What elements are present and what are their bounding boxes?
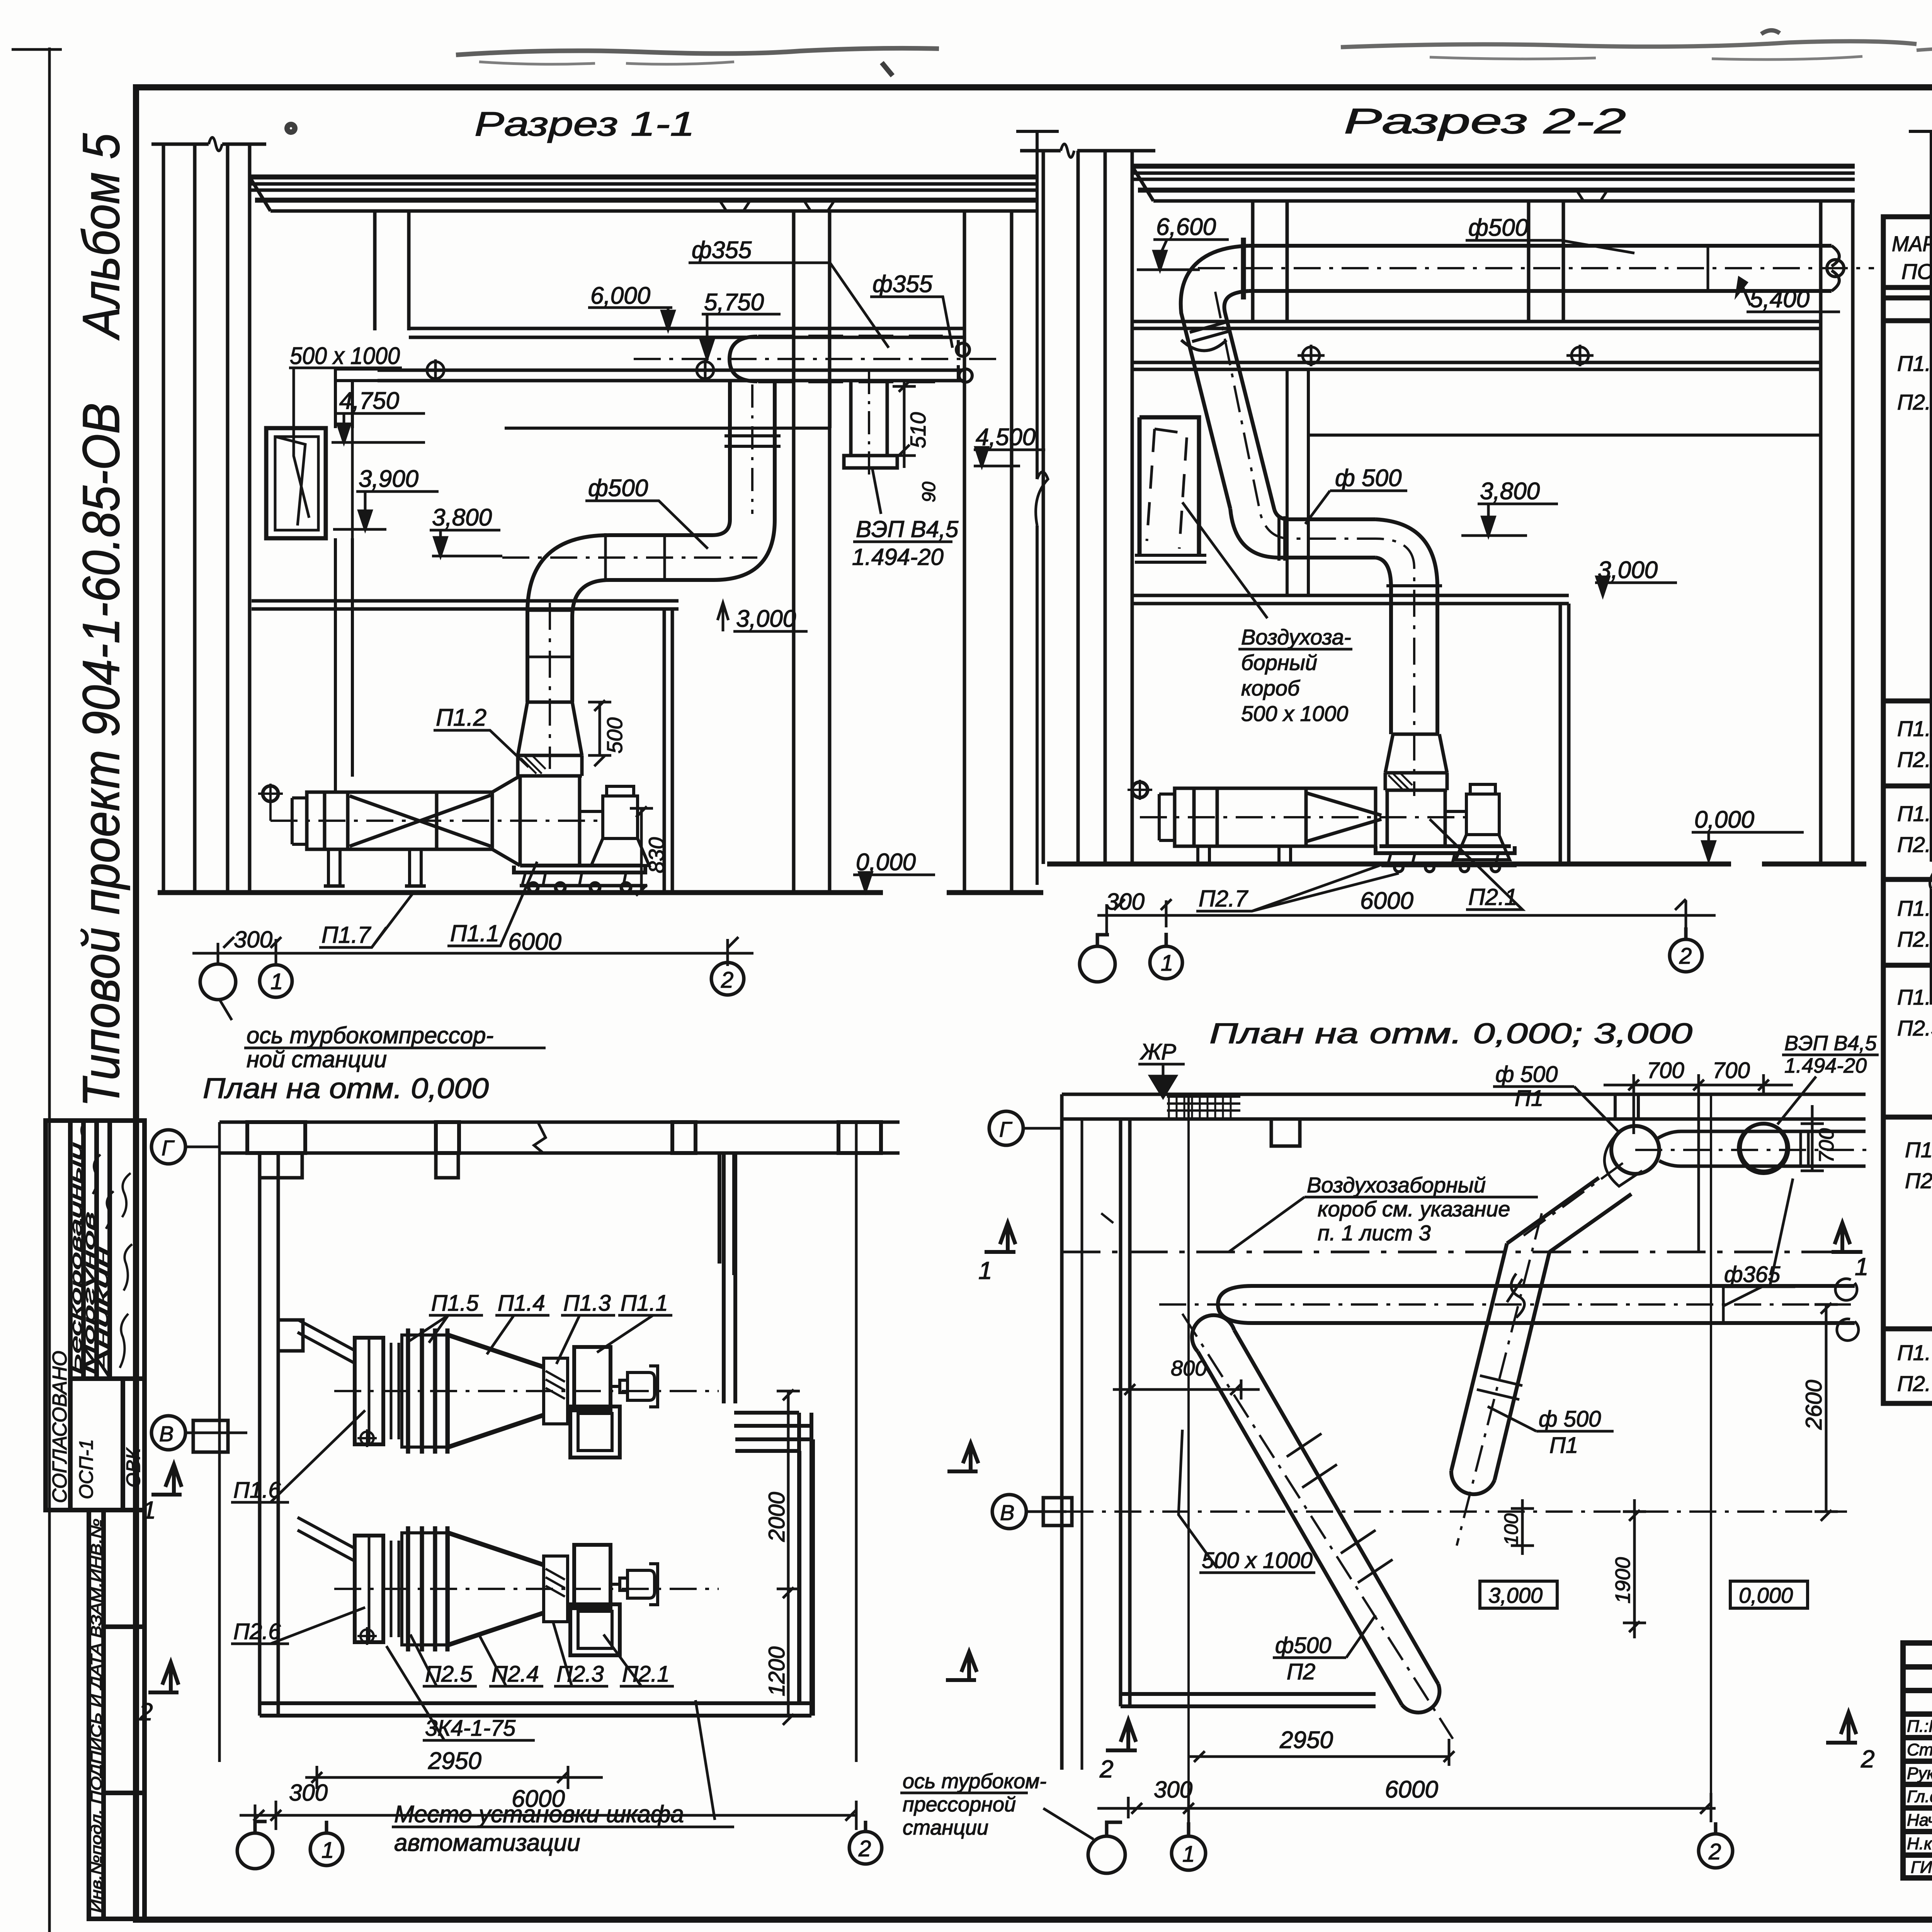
unit П1 flexible insert: [544, 1358, 568, 1424]
left wall: [219, 1122, 303, 1762]
right vertical dim line: [1016, 131, 1059, 885]
section marks: [148, 1443, 978, 1692]
svg-text:2: 2: [1708, 1839, 1721, 1864]
svg-text:Разрез 2-2: Разрез 2-2: [1344, 102, 1626, 141]
svg-text:4,750: 4,750: [339, 388, 399, 414]
svg-text:ф500: ф500: [1468, 214, 1528, 241]
title block: [1903, 1643, 1932, 1878]
svg-text:1.494-20: 1.494-20: [1784, 1054, 1867, 1077]
axis circles: [237, 1821, 882, 1869]
svg-text:П2.7: П2.7: [1199, 886, 1249, 912]
svg-text:700: 700: [1713, 1058, 1750, 1083]
svg-text:3,000: 3,000: [736, 605, 796, 632]
svg-text:П2.4: П2.4: [1897, 927, 1932, 951]
unit П1 damper: [355, 1338, 399, 1444]
svg-text:Воздухоза-: Воздухоза-: [1241, 625, 1351, 649]
svg-text:Г: Г: [162, 1136, 175, 1160]
svg-text:В: В: [1000, 1500, 1014, 1525]
svg-text:Место установки шкафа: Место установки шкафа: [394, 1801, 684, 1828]
labels П1.x: [431, 1291, 668, 1316]
svg-text:2: 2: [139, 1698, 153, 1726]
svg-text:короб см. указание: короб см. указание: [1318, 1197, 1510, 1221]
svg-text:2000: 2000: [764, 1492, 789, 1542]
unit П2 fan: [570, 1545, 620, 1655]
svg-text:ф 500: ф 500: [1335, 465, 1401, 492]
svg-text:Типовой проект 904-1-60.85-ОВ: Типовой проект 904-1-60.85-ОВ Альбом 5: [72, 133, 130, 1107]
svg-text:ЖР: ЖР: [1139, 1039, 1176, 1065]
svg-text:Гл.спец.: Гл.спец.: [1907, 1787, 1932, 1806]
axis G: [989, 1111, 1062, 1145]
svg-text:П2.3: П2.3: [1897, 832, 1932, 857]
svg-text:ВЭП В4,5: ВЭП В4,5: [856, 516, 959, 542]
svg-text:300: 300: [1106, 889, 1145, 915]
roof slab: [1132, 166, 1855, 201]
svg-text:1: 1: [270, 969, 283, 994]
room walls: [260, 1153, 811, 1716]
svg-text:ось турбоком-: ось турбоком-: [903, 1770, 1046, 1793]
svg-text:1.494-20: 1.494-20: [852, 544, 944, 570]
svg-text:2950: 2950: [428, 1748, 481, 1774]
svg-text:Н.контр.: Н.контр.: [1907, 1834, 1932, 1853]
svg-text:6,600: 6,600: [1156, 214, 1216, 240]
unit П1 diffuser cone: [448, 1335, 544, 1447]
left wall columns: [1020, 144, 1155, 864]
svg-text:П2.5: П2.5: [425, 1662, 473, 1687]
signature rows: [1907, 1717, 1932, 1877]
svg-text:борный: борный: [1241, 650, 1317, 675]
svg-text:П2: П2: [1287, 1659, 1315, 1684]
plan at 0.000; 3.000: [900, 1017, 1879, 1873]
svg-text:3,000: 3,000: [1488, 1583, 1543, 1607]
svg-text:510: 510: [906, 412, 930, 448]
svg-text:Ст.инж.: Ст.инж.: [1907, 1740, 1932, 1759]
svg-text:6,000: 6,000: [590, 282, 650, 309]
svg-text:2950: 2950: [1279, 1727, 1333, 1753]
row 3: [1897, 801, 1932, 859]
axis circles: [1080, 927, 1702, 982]
mezzanine slab 3.000: [1132, 595, 1569, 864]
mezzanine slab 3.000: [252, 381, 679, 893]
svg-text:5,750: 5,750: [704, 289, 764, 316]
svg-text:короб: короб: [1241, 676, 1301, 700]
fan + motor: [1376, 784, 1517, 872]
svg-text:2: 2: [1679, 944, 1692, 969]
svg-text:Разрез 1-1: Разрез 1-1: [474, 105, 695, 143]
svg-text:ОСП-1: ОСП-1: [75, 1439, 97, 1499]
unit П2 kalorifer box with flanges: [402, 1526, 448, 1651]
unit П1 motor: [611, 1366, 658, 1407]
section 1-1: [151, 105, 1059, 1072]
specification table: [1883, 186, 1932, 1403]
svg-text:0,000: 0,000: [1739, 1583, 1793, 1607]
svg-text:ф 500: ф 500: [1495, 1062, 1558, 1087]
unit П2 anchor: [357, 1627, 377, 1645]
svg-text:П1.1: П1.1: [450, 920, 499, 946]
inventory boxes column: [89, 1510, 145, 1919]
svg-text:П2.1: П2.1: [1897, 390, 1932, 414]
svg-text:500 х 1000: 500 х 1000: [1202, 1548, 1313, 1573]
transition cone + flexible insert P1.2: [518, 702, 582, 866]
left wall columns: [151, 138, 266, 893]
svg-text:автоматизации: автоматизации: [394, 1830, 580, 1856]
svg-text:300: 300: [289, 1780, 328, 1806]
svg-text:1: 1: [142, 1496, 156, 1524]
svg-text:Воздухозаборный: Воздухозаборный: [1307, 1173, 1486, 1197]
kalorifer box + diffuser: [258, 776, 603, 886]
svg-text:станции: станции: [903, 1816, 988, 1839]
axis V: [992, 1495, 1072, 1529]
svg-text:П1.4: П1.4: [498, 1291, 545, 1316]
row 5: [1897, 985, 1932, 1102]
row 6: [1905, 1136, 1932, 1328]
svg-text:1: 1: [1182, 1842, 1195, 1867]
svg-text:ПОЗ.: ПОЗ.: [1901, 259, 1932, 284]
svg-text:П2.6: П2.6: [1905, 1168, 1932, 1193]
svg-text:П1.7: П1.7: [1897, 1340, 1932, 1365]
hanger anchors: [422, 359, 719, 381]
section 2-2: [1020, 102, 1932, 1005]
duct f355 horizontal (dashed as behind slab): [634, 337, 1005, 382]
svg-text:6000: 6000: [1360, 888, 1413, 914]
svg-text:П2.7: П2.7: [1897, 1371, 1932, 1396]
svg-text:План на отм. 0,000: План на отм. 0,000: [203, 1072, 489, 1104]
svg-text:П1: П1: [1515, 1086, 1543, 1111]
row 4: [1897, 896, 1932, 951]
svg-text:П2.5: П2.5: [1897, 1016, 1932, 1040]
air intake louver window: [266, 428, 326, 538]
svg-text:500 x 1000: 500 x 1000: [290, 343, 400, 369]
svg-text:П2.2: П2.2: [1897, 747, 1932, 772]
svg-text:П2.1: П2.1: [622, 1662, 670, 1687]
header texts: [1892, 230, 1932, 284]
table grid: [1883, 217, 1932, 1403]
svg-text:п. 1 лист 3: п. 1 лист 3: [1318, 1221, 1431, 1245]
fan unit P1.1 with motor: [514, 786, 649, 892]
svg-text:прессорной: прессорной: [903, 1793, 1016, 1816]
crane beam level: [1132, 321, 1821, 595]
svg-text:100: 100: [1500, 1513, 1522, 1546]
unit П2 motor: [611, 1564, 658, 1605]
svg-text:1200: 1200: [764, 1646, 789, 1696]
svg-text:6000: 6000: [1385, 1776, 1438, 1803]
svg-text:Рук.гр.: Рук.гр.: [1907, 1764, 1932, 1783]
svg-text:П1.2: П1.2: [1897, 716, 1932, 741]
beam web band under 5.750 line: [505, 381, 830, 428]
svg-text:2: 2: [858, 1836, 871, 1861]
row 1: [1897, 349, 1932, 698]
duct f355 vertical drop to elbow: [712, 381, 781, 580]
svg-text:П2.3: П2.3: [556, 1662, 604, 1687]
dim 830 vertical: [630, 806, 653, 896]
signatures squiggles: [80, 1119, 132, 1368]
svg-text:П.:ЮЗЕР: П.:ЮЗЕР: [1907, 1717, 1932, 1736]
bottom dimension line: [192, 937, 753, 966]
svg-text:П1.5: П1.5: [1897, 985, 1932, 1009]
unit П2 flexible insert: [544, 1556, 568, 1622]
svg-text:ной станции: ной станции: [247, 1046, 387, 1072]
unit П1 centerline: [334, 1390, 719, 1392]
intake diagonal to П1: [298, 1320, 355, 1363]
svg-text:ф 500: ф 500: [1539, 1406, 1601, 1432]
intake channel: [335, 369, 378, 792]
svg-text:1: 1: [978, 1257, 992, 1284]
column under roof (middle wall): [375, 211, 830, 893]
svg-text:830: 830: [644, 837, 668, 873]
axis-2 line: [855, 1122, 858, 1762]
axis circles: [200, 953, 744, 1000]
row 2: [1897, 716, 1932, 774]
svg-text:2: 2: [1861, 1745, 1875, 1773]
svg-text:ф500: ф500: [1275, 1633, 1331, 1658]
svg-text:П1.4: П1.4: [1897, 896, 1932, 920]
svg-text:ВЭП В4,5: ВЭП В4,5: [1784, 1032, 1877, 1055]
duct f500 horizontal + elbow down: [502, 533, 757, 769]
svg-text:2: 2: [721, 968, 733, 993]
svg-text:300: 300: [234, 927, 272, 952]
duct from circle to right: [1635, 1131, 1870, 1166]
svg-text:3,800: 3,800: [1480, 478, 1540, 505]
svg-text:500 х 1000: 500 х 1000: [1241, 701, 1348, 726]
svg-text:П1.6: П1.6: [1905, 1138, 1932, 1162]
svg-text:1: 1: [1855, 1253, 1869, 1281]
svg-text:ф355: ф355: [872, 271, 933, 298]
level 6.000 slab: [378, 328, 964, 381]
svg-text:2: 2: [1099, 1755, 1114, 1783]
svg-text:ф355: ф355: [692, 237, 752, 264]
svg-text:ф500: ф500: [588, 475, 648, 502]
duct circles top: [1604, 1124, 1788, 1186]
top duct f500 horizontal: [1198, 238, 1874, 299]
horizontal duct P2 run: [1159, 1274, 1859, 1340]
svg-text:П1.1: П1.1: [1897, 351, 1932, 376]
axis circles: [1088, 1822, 1733, 1873]
svg-text:800: 800: [1171, 1356, 1207, 1380]
dim 1900: [1623, 1499, 1646, 1638]
labels П2.x: [425, 1662, 670, 1687]
svg-text:П1: П1: [1549, 1433, 1578, 1458]
axis-1 and axis-2 verticals: [1189, 1094, 1711, 1816]
right wall: [1821, 201, 1853, 864]
level boxes: [1480, 1581, 1808, 1608]
plan at 0.000: [139, 1072, 978, 1869]
svg-text:ОВК: ОВК: [122, 1447, 144, 1488]
svg-text:П1.7: П1.7: [321, 922, 372, 948]
svg-text:500: 500: [602, 718, 627, 753]
left margin stamp: Типовой проект 904-1-60.85-ОВ Альбом 5: [46, 133, 145, 1919]
top wall band: [219, 1122, 900, 1178]
svg-text:1900: 1900: [1611, 1557, 1634, 1604]
svg-text:План на отм. 0,000; 3,000: План на отм. 0,000; 3,000: [1209, 1017, 1692, 1049]
svg-text:Аникин: Аникин: [94, 1247, 111, 1376]
axis G circle: [151, 1130, 219, 1164]
axis V circle: [151, 1416, 247, 1452]
svg-text:Г: Г: [999, 1117, 1012, 1141]
approval table СОГЛАСОВАНО: [46, 1121, 145, 1510]
ground: [1047, 862, 1866, 867]
svg-text:2600: 2600: [1801, 1380, 1827, 1430]
label vozduhozaborny korob: [1241, 625, 1351, 726]
svg-text:1: 1: [321, 1838, 334, 1863]
unit П2 centerline: [334, 1588, 719, 1590]
unit П2 diffuser cone: [448, 1533, 544, 1645]
intake box dashed: [1135, 417, 1206, 562]
svg-text:ось турбокомпрессор-: ось турбокомпрессор-: [247, 1022, 493, 1048]
bottom dims: [1097, 899, 1716, 935]
svg-text:П1.2: П1.2: [436, 704, 486, 731]
ground line: [158, 890, 1043, 895]
diagonal duct P1: [1451, 1163, 1631, 1546]
roof slab: [250, 177, 1039, 211]
transition + flexible insert: [1385, 734, 1447, 846]
svg-text:0,000: 0,000: [1694, 806, 1754, 833]
intake diagonal to П2: [298, 1517, 355, 1561]
columns under roof: [1253, 201, 1563, 321]
kalorifer box: [1128, 780, 1468, 864]
svg-text:П1.3: П1.3: [1897, 801, 1932, 826]
right wall: [964, 211, 1012, 893]
svg-text:МАРКА,: МАРКА,: [1892, 231, 1932, 256]
unit П1 fan: [570, 1347, 620, 1458]
top wall band: [1062, 1094, 1866, 1146]
svg-text:Инв.№подл. ПОДПИСЬ И ДАТА ВЗА: Инв.№подл. ПОДПИСЬ И ДАТА ВЗАМ.ИНВ.№: [88, 1519, 105, 1913]
svg-text:700: 700: [1815, 1128, 1838, 1163]
dim 510 vertical: [893, 381, 916, 468]
svg-text:3,800: 3,800: [432, 504, 492, 531]
unit П1 kalorifer box with flanges: [402, 1328, 448, 1454]
svg-text:3К4-1-75: 3К4-1-75: [425, 1716, 516, 1741]
svg-text:90: 90: [919, 481, 939, 502]
unit П2 damper: [355, 1536, 399, 1642]
dim 100: [1511, 1499, 1534, 1555]
ВЭП unit duct stub right: [844, 371, 897, 479]
section 1-1 cut line: [1062, 1251, 1855, 1253]
right vertical dim line: [1909, 131, 1932, 1005]
room right wall upper: [724, 1153, 813, 1716]
left walls: [1062, 1094, 1130, 1770]
svg-text:П2.6: П2.6: [233, 1619, 281, 1644]
dim 500 vertical: [588, 700, 611, 766]
dim 700 vertical: [1801, 1105, 1824, 1171]
svg-text:700: 700: [1647, 1058, 1684, 1083]
svg-text:5,400: 5,400: [1750, 286, 1810, 313]
row 7: [1897, 1340, 1932, 1396]
svg-text:1: 1: [1161, 951, 1173, 976]
svg-text:П1.1: П1.1: [621, 1291, 668, 1316]
svg-text:П1.5: П1.5: [431, 1291, 479, 1316]
room bottom wall: [1121, 1694, 1376, 1706]
vertical dims 2000 1200: [777, 1389, 800, 1725]
svg-text:Нач.ОПВ: Нач.ОПВ: [1907, 1811, 1932, 1830]
svg-text:В: В: [159, 1422, 173, 1446]
diagonal duct P2: [1182, 1314, 1453, 1739]
duct elbow down-left then steep drop: [1181, 246, 1442, 796]
dim 2600: [1815, 1303, 1838, 1521]
svg-text:6000: 6000: [508, 929, 561, 955]
signature grid: [1903, 1667, 1932, 1855]
svg-text:3,900: 3,900: [359, 466, 418, 492]
svg-text:ГИП: ГИП: [1911, 1858, 1932, 1877]
svg-text:300: 300: [1154, 1777, 1192, 1803]
svg-text:П1.3: П1.3: [563, 1291, 611, 1316]
unit П1 anchor: [357, 1429, 377, 1447]
